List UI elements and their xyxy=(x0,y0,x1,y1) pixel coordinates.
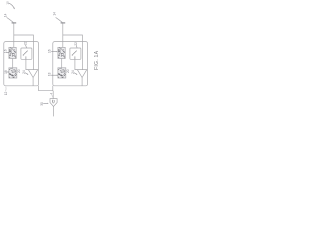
svg-text:14: 14 xyxy=(53,12,57,16)
svg-text:22: 22 xyxy=(23,41,27,45)
svg-text:20: 20 xyxy=(66,69,70,73)
svg-text:14: 14 xyxy=(3,13,7,17)
svg-text:22: 22 xyxy=(74,42,78,46)
svg-text:4: 4 xyxy=(50,93,54,95)
svg-text:16: 16 xyxy=(48,49,52,53)
svg-text:FIG. 1A: FIG. 1A xyxy=(94,50,98,70)
svg-text:30: 30 xyxy=(40,102,44,106)
svg-text:24: 24 xyxy=(71,70,75,74)
svg-text:20: 20 xyxy=(17,69,21,73)
svg-text:12: 12 xyxy=(4,92,8,96)
svg-text:18: 18 xyxy=(48,72,52,76)
svg-text:24: 24 xyxy=(22,70,26,74)
